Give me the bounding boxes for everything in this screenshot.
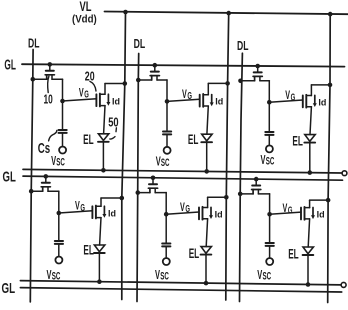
svg-text:10: 10 <box>44 91 53 106</box>
svg-text:V: V <box>283 203 288 215</box>
svg-text:EL: EL <box>83 241 94 257</box>
svg-text:V: V <box>180 202 185 214</box>
svg-text:EL: EL <box>188 131 199 147</box>
svg-text:DL: DL <box>134 36 146 51</box>
svg-text:Id: Id <box>108 208 116 218</box>
svg-text:G: G <box>84 90 89 101</box>
svg-text:(Vdd): (Vdd) <box>72 14 97 26</box>
svg-text:SC: SC <box>160 271 169 283</box>
svg-text:Id: Id <box>318 98 326 108</box>
svg-text:GL: GL <box>3 169 16 186</box>
svg-text:GL: GL <box>2 280 16 297</box>
svg-text:V: V <box>182 89 187 101</box>
svg-text:DL: DL <box>28 36 40 51</box>
svg-text:Id: Id <box>112 96 120 106</box>
svg-text:EL: EL <box>292 132 303 148</box>
svg-text:Id: Id <box>215 210 223 220</box>
svg-text:EL: EL <box>288 246 299 262</box>
svg-text:Id: Id <box>215 97 223 107</box>
svg-text:V: V <box>79 87 84 99</box>
svg-text:DL: DL <box>237 38 249 53</box>
svg-text:G: G <box>291 92 296 103</box>
svg-text:Cs: Cs <box>38 141 50 157</box>
svg-text:G: G <box>185 204 190 215</box>
svg-text:V: V <box>75 201 80 213</box>
svg-text:G: G <box>288 206 293 217</box>
svg-text:SC: SC <box>52 270 61 282</box>
svg-text:SC: SC <box>263 270 272 282</box>
svg-text:Id: Id <box>317 210 325 220</box>
svg-text:SC: SC <box>161 157 170 169</box>
svg-text:VL: VL <box>80 0 92 14</box>
svg-text:SC: SC <box>56 156 65 168</box>
svg-text:G: G <box>187 91 192 102</box>
svg-text:V: V <box>285 90 290 102</box>
svg-text:EL: EL <box>189 245 200 261</box>
svg-text:GL: GL <box>4 57 16 73</box>
svg-text:50: 50 <box>108 115 118 129</box>
svg-text:SC: SC <box>266 156 275 168</box>
svg-text:EL: EL <box>83 131 94 147</box>
svg-text:G: G <box>80 203 85 214</box>
